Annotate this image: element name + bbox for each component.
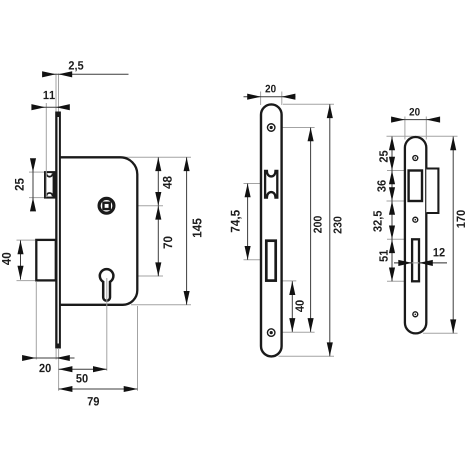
- strike bottom screw hole: [413, 312, 418, 317]
- deadbolt side view: [36, 240, 56, 281]
- dimension 20 strike width: [391, 108, 440, 123]
- extension lines left view: [17, 74, 192, 391]
- dimension chain 25 36 32,5 51: [373, 137, 395, 282]
- extension lines right view: [387, 117, 458, 334]
- dimension 12 deadbolt cutout width: [394, 248, 447, 266]
- dimension 20 bolt throw: [22, 355, 74, 372]
- dimension 40 cutout to screw: [289, 281, 304, 332]
- latch bolt side view: [45, 103, 56, 198]
- dimension 74,5: [231, 184, 251, 260]
- lock case: [59, 157, 137, 304]
- dimension 200 screw spacing: [308, 128, 322, 332]
- strike top screw hole: [413, 156, 418, 161]
- strike middle screw hole: [413, 217, 418, 222]
- strike deadbolt cutout: [394, 239, 447, 281]
- faceplate latch cutout: [265, 171, 277, 198]
- dimension 11 latch protrusion: [31, 91, 69, 110]
- dimension 40 bolt height: [2, 240, 24, 279]
- dimension 230 faceplate length: [327, 104, 342, 356]
- dimension 170 strike length: [450, 137, 465, 334]
- faceplate bolt cutout: [266, 241, 275, 281]
- dimension 145 case height: [184, 157, 202, 304]
- dimension 48: [155, 157, 172, 206]
- faceplate top screw hole: [267, 124, 275, 132]
- dimension 50 backset: [59, 366, 107, 382]
- dimension 79 case depth: [59, 386, 138, 406]
- faceplate side view: [55, 112, 61, 349]
- dimension 25 latch height: [15, 158, 36, 211]
- faceplate bottom screw hole: [267, 329, 275, 337]
- euro cylinder hole: [100, 269, 114, 371]
- dimension 20 faceplate width: [244, 85, 296, 100]
- lock faceplate front view: [261, 104, 282, 356]
- extension lines middle view: [244, 92, 335, 357]
- follower square hub: [99, 198, 114, 213]
- dimension 2,5 faceplate thickness: [42, 61, 128, 77]
- strike plate: [405, 137, 426, 333]
- strike side tab: [426, 169, 438, 214]
- dimension 70: [155, 206, 172, 276]
- strike latch cutout: [409, 171, 422, 202]
